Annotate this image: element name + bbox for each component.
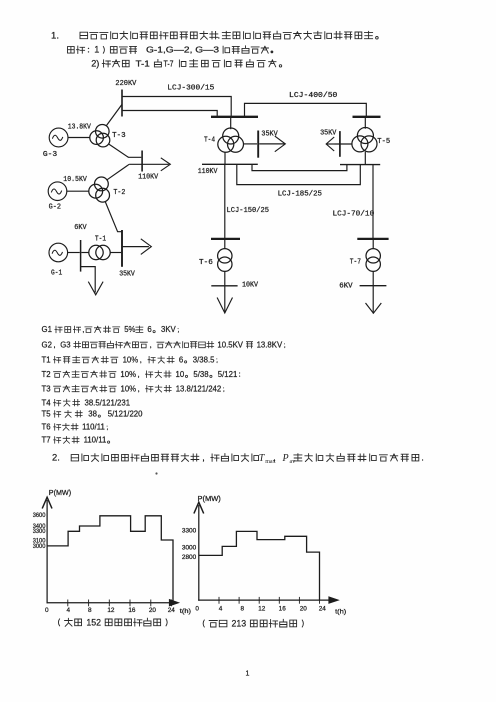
load arrow 6KV feeder — [366, 303, 382, 313]
svg-text:10%: 10% — [123, 355, 139, 364]
wire T-3 to 110KV node — [109, 144, 142, 157]
svg-text:13.8KV: 13.8KV — [68, 124, 92, 132]
svg-text:4: 4 — [219, 605, 223, 612]
text item2 tail — [179, 60, 186, 67]
svg-text:20: 20 — [149, 607, 157, 614]
svg-text:213: 213 — [232, 619, 247, 629]
bus T-6 high side — [211, 238, 240, 240]
svg-text:6: 6 — [179, 355, 183, 364]
svg-text:16: 16 — [128, 607, 136, 614]
svg-text:35KV: 35KV — [119, 270, 135, 278]
stray dot — [155, 472, 157, 474]
svg-text:6KV: 6KV — [74, 224, 87, 232]
svg-text:3600: 3600 — [33, 512, 46, 519]
chart2 tick — [278, 597, 280, 604]
svg-text:.: . — [218, 30, 221, 41]
load arrow 6KV left feeder — [88, 282, 103, 295]
wire T-2 to 110KV node — [107, 164, 129, 180]
chart1 y-axis — [46, 500, 48, 603]
bus 10KV at T-6 — [211, 285, 237, 287]
wire LCJ-70/10 — [372, 165, 374, 239]
chart2 y-axis — [198, 505, 200, 601]
generator G-2 — [48, 182, 67, 201]
svg-text:8: 8 — [88, 607, 92, 614]
svg-text:LCJ-150/25: LCJ-150/25 — [227, 207, 270, 215]
svg-text:T-5: T-5 — [377, 138, 390, 146]
svg-text:38.5/121/231: 38.5/121/231 — [85, 398, 131, 407]
wire LCJ-300/15 circuit 1 — [122, 97, 231, 116]
load arrow 35KV at T-4 — [259, 143, 285, 145]
text item2 bianyaqi — [102, 60, 110, 67]
chart1 caption — [58, 619, 59, 627]
text item2 dao — [154, 60, 161, 67]
svg-text:,: , — [82, 325, 84, 334]
text problem 1 line a — [80, 32, 88, 39]
chart2 caption — [203, 620, 204, 628]
transformer T-3 — [96, 125, 110, 139]
svg-text:t(h): t(h) — [335, 609, 346, 616]
load arrow 10KV feeder — [217, 298, 232, 314]
svg-text:LCJ-185/25: LCJ-185/25 — [278, 190, 323, 198]
svg-text:.: . — [421, 452, 424, 463]
wire T-4 low side drop — [224, 152, 226, 164]
wire LCJ-150/25 — [224, 164, 226, 239]
chart1 tick — [67, 600, 69, 607]
svg-text:10.5KV: 10.5KV — [217, 340, 243, 349]
text problem 1 line b — [222, 31, 230, 38]
text problem 2 tail — [294, 454, 302, 461]
svg-text:2): 2) — [91, 58, 99, 68]
generator G-3 — [49, 128, 68, 147]
svg-text:3000: 3000 — [182, 545, 197, 552]
bus T-7 high side — [357, 238, 388, 240]
svg-text:13.8/121/242: 13.8/121/242 — [176, 384, 222, 393]
svg-text:P(MW): P(MW) — [49, 490, 71, 497]
svg-text:20: 20 — [300, 605, 308, 612]
svg-text:220KV: 220KV — [115, 80, 137, 88]
bus 110KV left node — [141, 151, 143, 172]
bus T-4 220KV side — [211, 116, 258, 118]
svg-text:1: 1 — [94, 45, 99, 55]
text problem 2 body — [71, 455, 78, 461]
text tryfind — [68, 47, 75, 54]
svg-text:G3: G3 — [60, 340, 70, 349]
svg-text:2800: 2800 — [182, 554, 197, 561]
svg-text:3300: 3300 — [33, 528, 46, 535]
wire LCJ-400/50 — [245, 103, 367, 116]
svg-text:3KV: 3KV — [161, 325, 177, 334]
wire T-4 to 35KV bus — [244, 143, 258, 145]
svg-text:T-4: T-4 — [204, 137, 215, 145]
svg-text:T-3: T-3 — [112, 132, 126, 140]
svg-text:LCJ-400/50: LCJ-400/50 — [289, 92, 338, 100]
bus 6KV generator bus — [80, 240, 82, 272]
svg-text:10KV: 10KV — [242, 282, 259, 290]
chart1 x-axis — [47, 602, 173, 604]
svg-text:G1: G1 — [42, 325, 52, 334]
generator G-1 — [49, 243, 68, 262]
wire G-3 to T-3 — [68, 137, 90, 139]
text item1 stop — [271, 51, 274, 54]
svg-text:G-3: G-3 — [43, 151, 57, 159]
svg-text:1: 1 — [246, 671, 250, 678]
svg-text:P: P — [282, 453, 289, 464]
wire T-5 high side drop — [364, 117, 366, 129]
wire LCJ-185/25 circuit 2 — [237, 164, 360, 184]
svg-text:T6: T6 — [42, 423, 51, 432]
chart2 tick — [319, 597, 321, 604]
svg-text:T-6: T-6 — [199, 259, 213, 267]
chart2 x-axis — [198, 599, 329, 601]
chart2 tick — [218, 597, 220, 604]
wire T-6 high drop — [224, 239, 226, 249]
svg-text:13.8KV: 13.8KV — [257, 340, 283, 349]
chart1 tick — [129, 600, 131, 607]
chart1 load curve — [47, 516, 173, 603]
wire T-4 high side drop — [230, 117, 232, 129]
svg-text:110KV: 110KV — [198, 168, 218, 176]
svg-text:6: 6 — [147, 325, 151, 334]
text item1 fadianji — [103, 46, 104, 54]
svg-text:110/11: 110/11 — [84, 436, 107, 445]
svg-text:LCJ-70/10: LCJ-70/10 — [333, 210, 375, 218]
wire T-7 low drop — [372, 271, 374, 313]
wire T-7 high drop — [372, 239, 374, 249]
wire T-1 to 35KV bus — [110, 252, 121, 254]
wire T-2 to 35KV bus — [105, 202, 122, 232]
transformer T-2 — [95, 177, 109, 191]
svg-text:5/121: 5/121 — [218, 370, 238, 379]
svg-text:G-2: G-2 — [49, 204, 61, 212]
load arrow 35KV left — [122, 246, 149, 248]
chart2 tick — [258, 597, 260, 604]
transformer T-6 — [218, 249, 232, 263]
svg-text:T5: T5 — [42, 410, 52, 419]
svg-text:4: 4 — [67, 607, 71, 614]
transformer T-5 — [357, 128, 373, 144]
svg-text:24: 24 — [319, 605, 327, 612]
chart2 tick — [298, 597, 300, 604]
svg-text:38: 38 — [88, 410, 97, 419]
svg-text:35KV: 35KV — [261, 130, 278, 138]
bus 35KV at T-4 — [257, 131, 259, 158]
chart1 tick — [150, 600, 152, 607]
transformer T-1 — [89, 245, 103, 259]
bus T-5 220KV side — [353, 116, 381, 118]
load arrow 35KV at T-5 — [326, 137, 334, 151]
svg-text:152: 152 — [86, 617, 101, 627]
wire G-2 to T-2 — [67, 190, 89, 192]
transformer T-7 — [366, 249, 380, 263]
svg-text:10%: 10% — [120, 370, 136, 379]
svg-text:10: 10 — [176, 370, 185, 379]
svg-text:3/38.5: 3/38.5 — [193, 355, 215, 364]
svg-text:0: 0 — [195, 605, 199, 612]
svg-text:T3: T3 — [42, 384, 51, 393]
svg-text:G-1,G—2, G—3: G-1,G—2, G—3 — [146, 45, 219, 55]
svg-text:P(MW): P(MW) — [198, 496, 221, 503]
chart1 tick — [88, 600, 90, 607]
svg-text:110/11: 110/11 — [82, 423, 105, 432]
bus 6KV at T-7 — [360, 285, 387, 287]
svg-text:5/121/220: 5/121/220 — [108, 410, 143, 419]
text item2 stop — [279, 65, 281, 67]
svg-text:6KV: 6KV — [339, 283, 353, 291]
svg-text:8: 8 — [241, 605, 245, 612]
svg-text:12: 12 — [107, 607, 115, 614]
svg-text:T-7: T-7 — [164, 58, 174, 68]
chart2 tick — [238, 597, 240, 604]
text item1 tail — [223, 46, 230, 53]
wire T-5 low side drop — [364, 152, 366, 165]
svg-text:1.: 1. — [51, 31, 59, 42]
svg-text:T1: T1 — [42, 355, 51, 364]
svg-text:T7: T7 — [42, 436, 51, 445]
wire T-3 to 220KV bus — [106, 105, 122, 126]
svg-text:G-1: G-1 — [51, 270, 63, 278]
bus 35KV left — [121, 230, 123, 267]
svg-text:10%: 10% — [121, 384, 137, 393]
chart2 load curve — [199, 531, 320, 600]
svg-text:16: 16 — [279, 605, 287, 612]
svg-text:5%: 5% — [124, 325, 135, 334]
svg-text:t(h): t(h) — [180, 608, 191, 615]
text punct — [273, 460, 276, 462]
svg-text:110KV: 110KV — [138, 174, 159, 182]
load arrow 110KV — [129, 163, 169, 165]
svg-text:T-2: T-2 — [113, 189, 125, 197]
svg-text:12: 12 — [258, 605, 266, 612]
svg-text:24: 24 — [168, 607, 176, 614]
svg-text:3000: 3000 — [33, 543, 46, 550]
svg-text:T-1: T-1 — [136, 58, 151, 68]
chart1 tick — [108, 600, 110, 607]
svg-text:T-7: T-7 — [350, 259, 361, 267]
svg-text:35KV: 35KV — [320, 130, 337, 138]
svg-text:2.: 2. — [52, 452, 60, 463]
svg-text:5/38: 5/38 — [193, 370, 208, 379]
svg-text:T-1: T-1 — [95, 236, 107, 244]
wire 6KV feeder — [81, 267, 96, 293]
svg-text:3300: 3300 — [182, 527, 197, 534]
svg-text:av: av — [290, 459, 297, 465]
wire G-1 to 6KV bus — [68, 252, 80, 254]
svg-text:G2: G2 — [42, 340, 52, 349]
svg-text:0: 0 — [45, 607, 49, 614]
wire T-6 low drop — [224, 271, 226, 312]
svg-text:T4: T4 — [42, 398, 52, 407]
wire LCJ-300/15 circuit 2 — [122, 111, 217, 116]
bus 110KV right — [340, 164, 380, 166]
bus 110KV left — [202, 163, 258, 165]
svg-text:10.5KV: 10.5KV — [63, 176, 87, 184]
transformer T-4 — [223, 128, 239, 144]
wire 6KV bus to T-1 — [81, 252, 88, 254]
chart1 tick — [171, 600, 173, 607]
bus 35KV at T-5 — [339, 131, 341, 157]
svg-text:LCJ-300/15: LCJ-300/15 — [167, 84, 214, 92]
wire LCJ-185/25 circuit 1 — [252, 164, 347, 170]
svg-text:T2: T2 — [42, 370, 51, 379]
bus 220KV system bus — [121, 90, 123, 117]
wire T-5 to 35KV bus — [335, 143, 353, 145]
